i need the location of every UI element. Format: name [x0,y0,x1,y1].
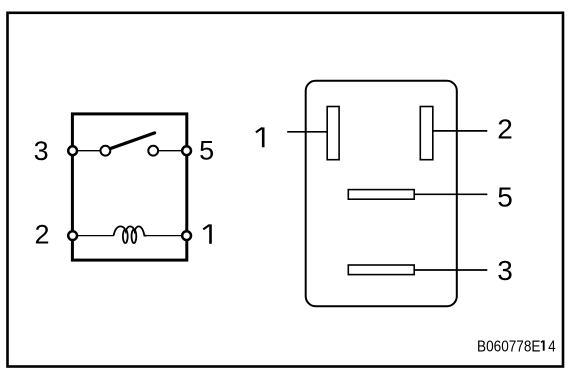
svg-text:5: 5 [199,136,214,166]
pin 5 slot [348,190,414,200]
switch arm (open contact) [110,133,154,149]
label 5 (connector) [497,182,513,213]
pin 1 slot [327,107,339,160]
relay coil [114,226,147,243]
relay connector body (pin-face view) [306,81,457,306]
pin 5 leader line [414,193,487,195]
pin 3 slot [348,265,414,275]
pin 2 terminal circle [68,231,77,240]
pin 1 terminal circle [182,231,191,240]
relay schematic box [72,114,186,260]
pin 3 leader line [414,269,487,271]
svg-text:B060778E: B060778E [477,338,541,355]
svg-text:5: 5 [497,182,513,213]
svg-text:3: 3 [34,136,49,166]
pin 2 leader line [433,130,488,132]
label 1 (connector) [256,127,263,147]
switch fixed contact circle [148,146,158,156]
svg-text:4: 4 [548,338,555,355]
svg-text:2: 2 [497,114,513,145]
part number B060778E14 [477,338,556,355]
switch pivot contact circle [101,146,111,156]
label 5 (left relay, upper-right pin) [199,136,214,166]
wire pin2 to coil [77,235,114,237]
wire pin3 to switch pivot [77,150,101,152]
wire coil to pin1 [147,235,182,237]
wire switch contact to pin5 [158,150,182,152]
label 2 (connector) [497,114,513,145]
pin 1 leader line [287,131,328,133]
label 1 (left relay, lower-right pin) [203,224,210,243]
pin 3 terminal circle [68,146,77,155]
label 2 (left relay, lower-left pin) [34,220,49,250]
svg-text:3: 3 [497,255,513,286]
pin 2 slot [420,107,433,160]
svg-text:2: 2 [34,220,49,250]
label 3 (left relay, upper-left pin) [34,136,49,166]
pin 5 terminal circle [182,146,191,155]
label 3 (connector) [497,255,513,286]
